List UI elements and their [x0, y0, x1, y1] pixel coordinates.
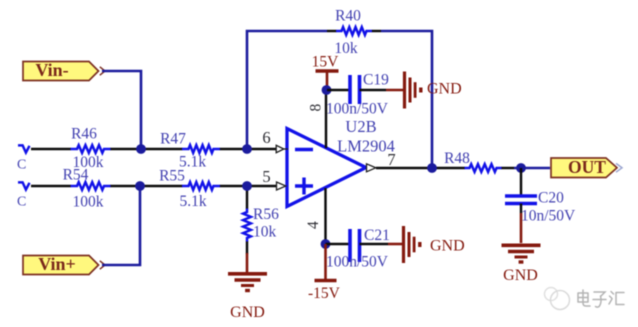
pin 8 (V+): [325, 90, 327, 148]
op-amp U2B body: [287, 129, 366, 207]
pin 6 number: [262, 128, 270, 147]
port flag Vin+: [23, 254, 105, 275]
svg-text:R55: R55: [159, 168, 185, 185]
svg-text:LM2904: LM2904: [337, 137, 395, 156]
node upper row right junction: [242, 144, 252, 154]
svg-text:10k: 10k: [253, 224, 277, 241]
wire feedback left: [247, 31, 327, 149]
off-page resistor stub (cut) upper: [18, 145, 30, 152]
svg-text:GND: GND: [430, 238, 465, 255]
pin 5 number: [262, 167, 270, 186]
value 100k (R54): [73, 194, 104, 211]
label GND (R56): [230, 304, 265, 321]
power +15V symbol: [316, 71, 339, 90]
svg-text:OUT: OUT: [568, 157, 606, 177]
label 15V: [312, 54, 340, 71]
ground (sideways) at C19: [386, 72, 423, 109]
label GND (C20): [503, 267, 538, 284]
wire Vin+ to lower node: [102, 186, 140, 265]
label C19: [363, 72, 389, 89]
label R47: [160, 131, 186, 148]
node lower row left junction: [135, 181, 145, 191]
svg-text:GND: GND: [503, 267, 538, 284]
node OUT/C20 junction: [516, 163, 526, 173]
power -15V symbol: [315, 244, 337, 281]
node pin8/C19 junction: [322, 85, 332, 95]
resistor R55: [140, 182, 247, 190]
resistor R47: [141, 145, 247, 153]
svg-text:GND: GND: [427, 81, 462, 98]
node upper row left junction: [136, 144, 146, 154]
port flag Vin-: [23, 60, 105, 81]
wire Vin- to upper node: [102, 71, 141, 149]
value 100k (R46): [73, 154, 104, 171]
svg-text:100k: 100k: [73, 194, 104, 211]
svg-text:U2B: U2B: [345, 117, 376, 136]
svg-text:Vin-: Vin-: [35, 60, 68, 80]
resistor R54: [31, 182, 140, 190]
svg-text:C: C: [17, 195, 26, 210]
cut value text lower: [17, 195, 26, 210]
resistor R46: [31, 145, 141, 153]
label R56: [253, 206, 279, 223]
pin 6 (inverting input): [247, 145, 288, 152]
svg-text:100n/50V: 100n/50V: [326, 101, 389, 118]
svg-text:4: 4: [305, 221, 322, 229]
svg-text:100n/50V: 100n/50V: [326, 254, 389, 271]
node output junction: [427, 163, 437, 173]
value 10k (R40): [334, 40, 358, 57]
label R48: [444, 150, 470, 167]
watermark text: [577, 289, 624, 307]
capacitor C20: [505, 168, 537, 213]
svg-text:Vin+: Vin+: [38, 254, 76, 274]
svg-text:C19: C19: [363, 72, 389, 89]
port flag OUT: [551, 157, 622, 178]
svg-text:R56: R56: [253, 206, 279, 223]
node pin4/C21 junction: [321, 239, 331, 249]
label GND (C19): [427, 81, 462, 98]
label R40: [335, 8, 361, 25]
svg-text:5.1k: 5.1k: [179, 193, 206, 210]
capacitor C19: [327, 75, 386, 104]
svg-text:15V: 15V: [312, 54, 340, 71]
label R54: [63, 167, 89, 184]
off-page resistor stub (cut) lower: [18, 182, 30, 189]
label C21: [364, 227, 390, 244]
label R55: [159, 168, 185, 185]
svg-text:C20: C20: [538, 190, 564, 207]
svg-text:-15V: -15V: [308, 285, 341, 302]
svg-text:C21: C21: [364, 227, 390, 244]
value 10n/50V (C20): [521, 208, 576, 225]
ground (sideways) at C21: [388, 226, 422, 263]
svg-text:5: 5: [262, 167, 270, 186]
resistor R40: [327, 27, 381, 35]
resistor R48: [432, 164, 514, 172]
svg-text:10n/50V: 10n/50V: [521, 208, 576, 225]
wire output node to OUT: [514, 167, 550, 170]
svg-text:R47: R47: [160, 131, 186, 148]
value 100n/50V (C21): [326, 254, 389, 271]
svg-text:8: 8: [308, 104, 325, 112]
ground (earth) at R56: [228, 274, 267, 292]
svg-text:R54: R54: [63, 167, 89, 184]
pin 7 number: [387, 150, 395, 169]
label C20: [538, 190, 564, 207]
svg-text:R46: R46: [71, 126, 97, 143]
designator U2B: [345, 117, 376, 136]
node lower row right junction: [242, 181, 252, 191]
part number LM2904: [337, 137, 395, 156]
svg-text:GND: GND: [230, 304, 265, 321]
svg-text:C: C: [17, 158, 26, 173]
pin 4 number: [305, 221, 322, 229]
pin 7 (output): [367, 164, 433, 172]
label -15V: [308, 285, 341, 302]
wire feedback right: [381, 31, 432, 168]
capacitor C21: [326, 229, 389, 262]
ground (earth) at C20: [502, 213, 541, 264]
label R46: [71, 126, 97, 143]
value 5.1k (R47): [179, 154, 206, 171]
value 10k (R56): [253, 224, 277, 241]
cut value text upper: [17, 158, 26, 173]
svg-text:R40: R40: [335, 8, 361, 25]
pin 8 number: [308, 104, 325, 112]
resistor R56: [243, 186, 251, 272]
svg-text:R48: R48: [444, 150, 470, 167]
pin 4 (V-): [324, 188, 326, 244]
pin 5 (non-inverting input): [247, 182, 286, 190]
label GND (C21): [430, 238, 465, 255]
watermark logo: [545, 288, 570, 310]
value 5.1k (R55): [179, 193, 206, 210]
svg-text:6: 6: [262, 128, 270, 147]
value 100n/50V (C19): [326, 101, 389, 118]
